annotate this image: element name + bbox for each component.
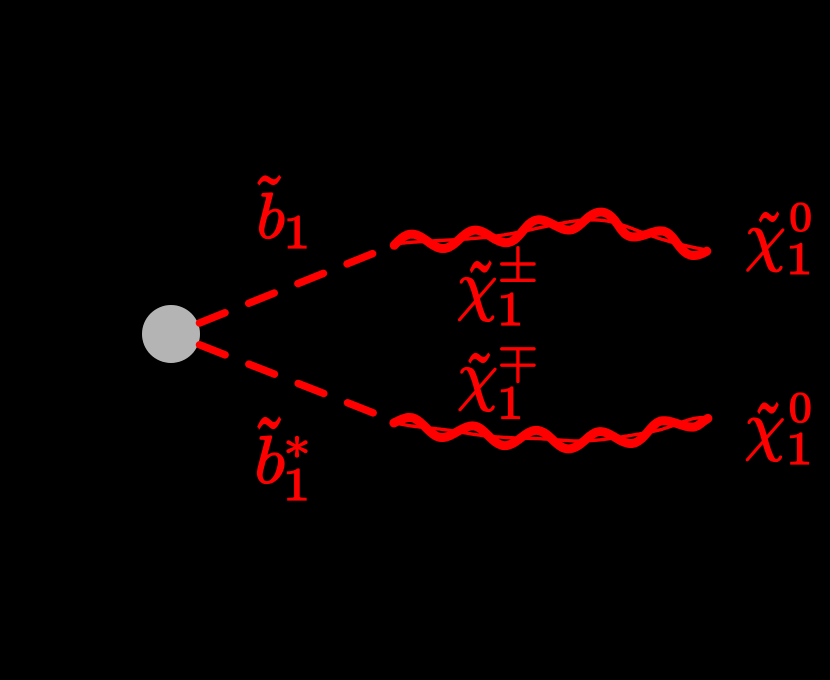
subscript 1 of neutralino-top bbox=[791, 244, 809, 274]
tilde of neutralino-top bbox=[760, 213, 779, 222]
tilde of b1star bbox=[258, 418, 281, 429]
tilde of neutralino-bottom bbox=[758, 403, 778, 413]
subscript 1 of chargino-minus bbox=[502, 387, 520, 419]
sbottom b1 propagator (dashed) bbox=[200, 246, 394, 324]
tilde of chargino-plus bbox=[471, 262, 492, 273]
chi of chargino-minus bbox=[459, 368, 496, 412]
tilde of b1 bbox=[258, 176, 281, 185]
chargino-minus wavy line (lower) bbox=[394, 418, 708, 449]
b of b1star bbox=[258, 436, 285, 484]
subscript 1 of b1 bbox=[288, 216, 306, 248]
subscript 1 of chargino-plus bbox=[502, 293, 520, 325]
chi of neutralino-bottom bbox=[746, 418, 783, 462]
vertex blob bbox=[142, 305, 200, 363]
tilde of chargino-minus bbox=[469, 354, 490, 363]
asterisk of b1star bbox=[287, 437, 307, 458]
chi of chargino-plus bbox=[459, 278, 496, 322]
subscript 1 of neutralino-bottom bbox=[791, 433, 809, 464]
chargino-plus wavy line (upper) bbox=[394, 212, 707, 255]
chargino-minus core line (lower) bbox=[394, 418, 708, 441]
chargino-plus core line (upper) bbox=[394, 220, 707, 250]
plus-minus superscript bbox=[501, 247, 535, 282]
anti-sbottom b1star propagator (dashed) bbox=[200, 345, 395, 421]
b of b1 bbox=[260, 193, 285, 239]
minus-plus superscript bbox=[501, 348, 535, 383]
chi of neutralino-top bbox=[747, 228, 784, 272]
superscript 0 of neutralino-top bbox=[791, 203, 810, 231]
subscript 1 of b1star bbox=[288, 469, 307, 500]
superscript 0 of neutralino-bottom bbox=[791, 393, 811, 423]
